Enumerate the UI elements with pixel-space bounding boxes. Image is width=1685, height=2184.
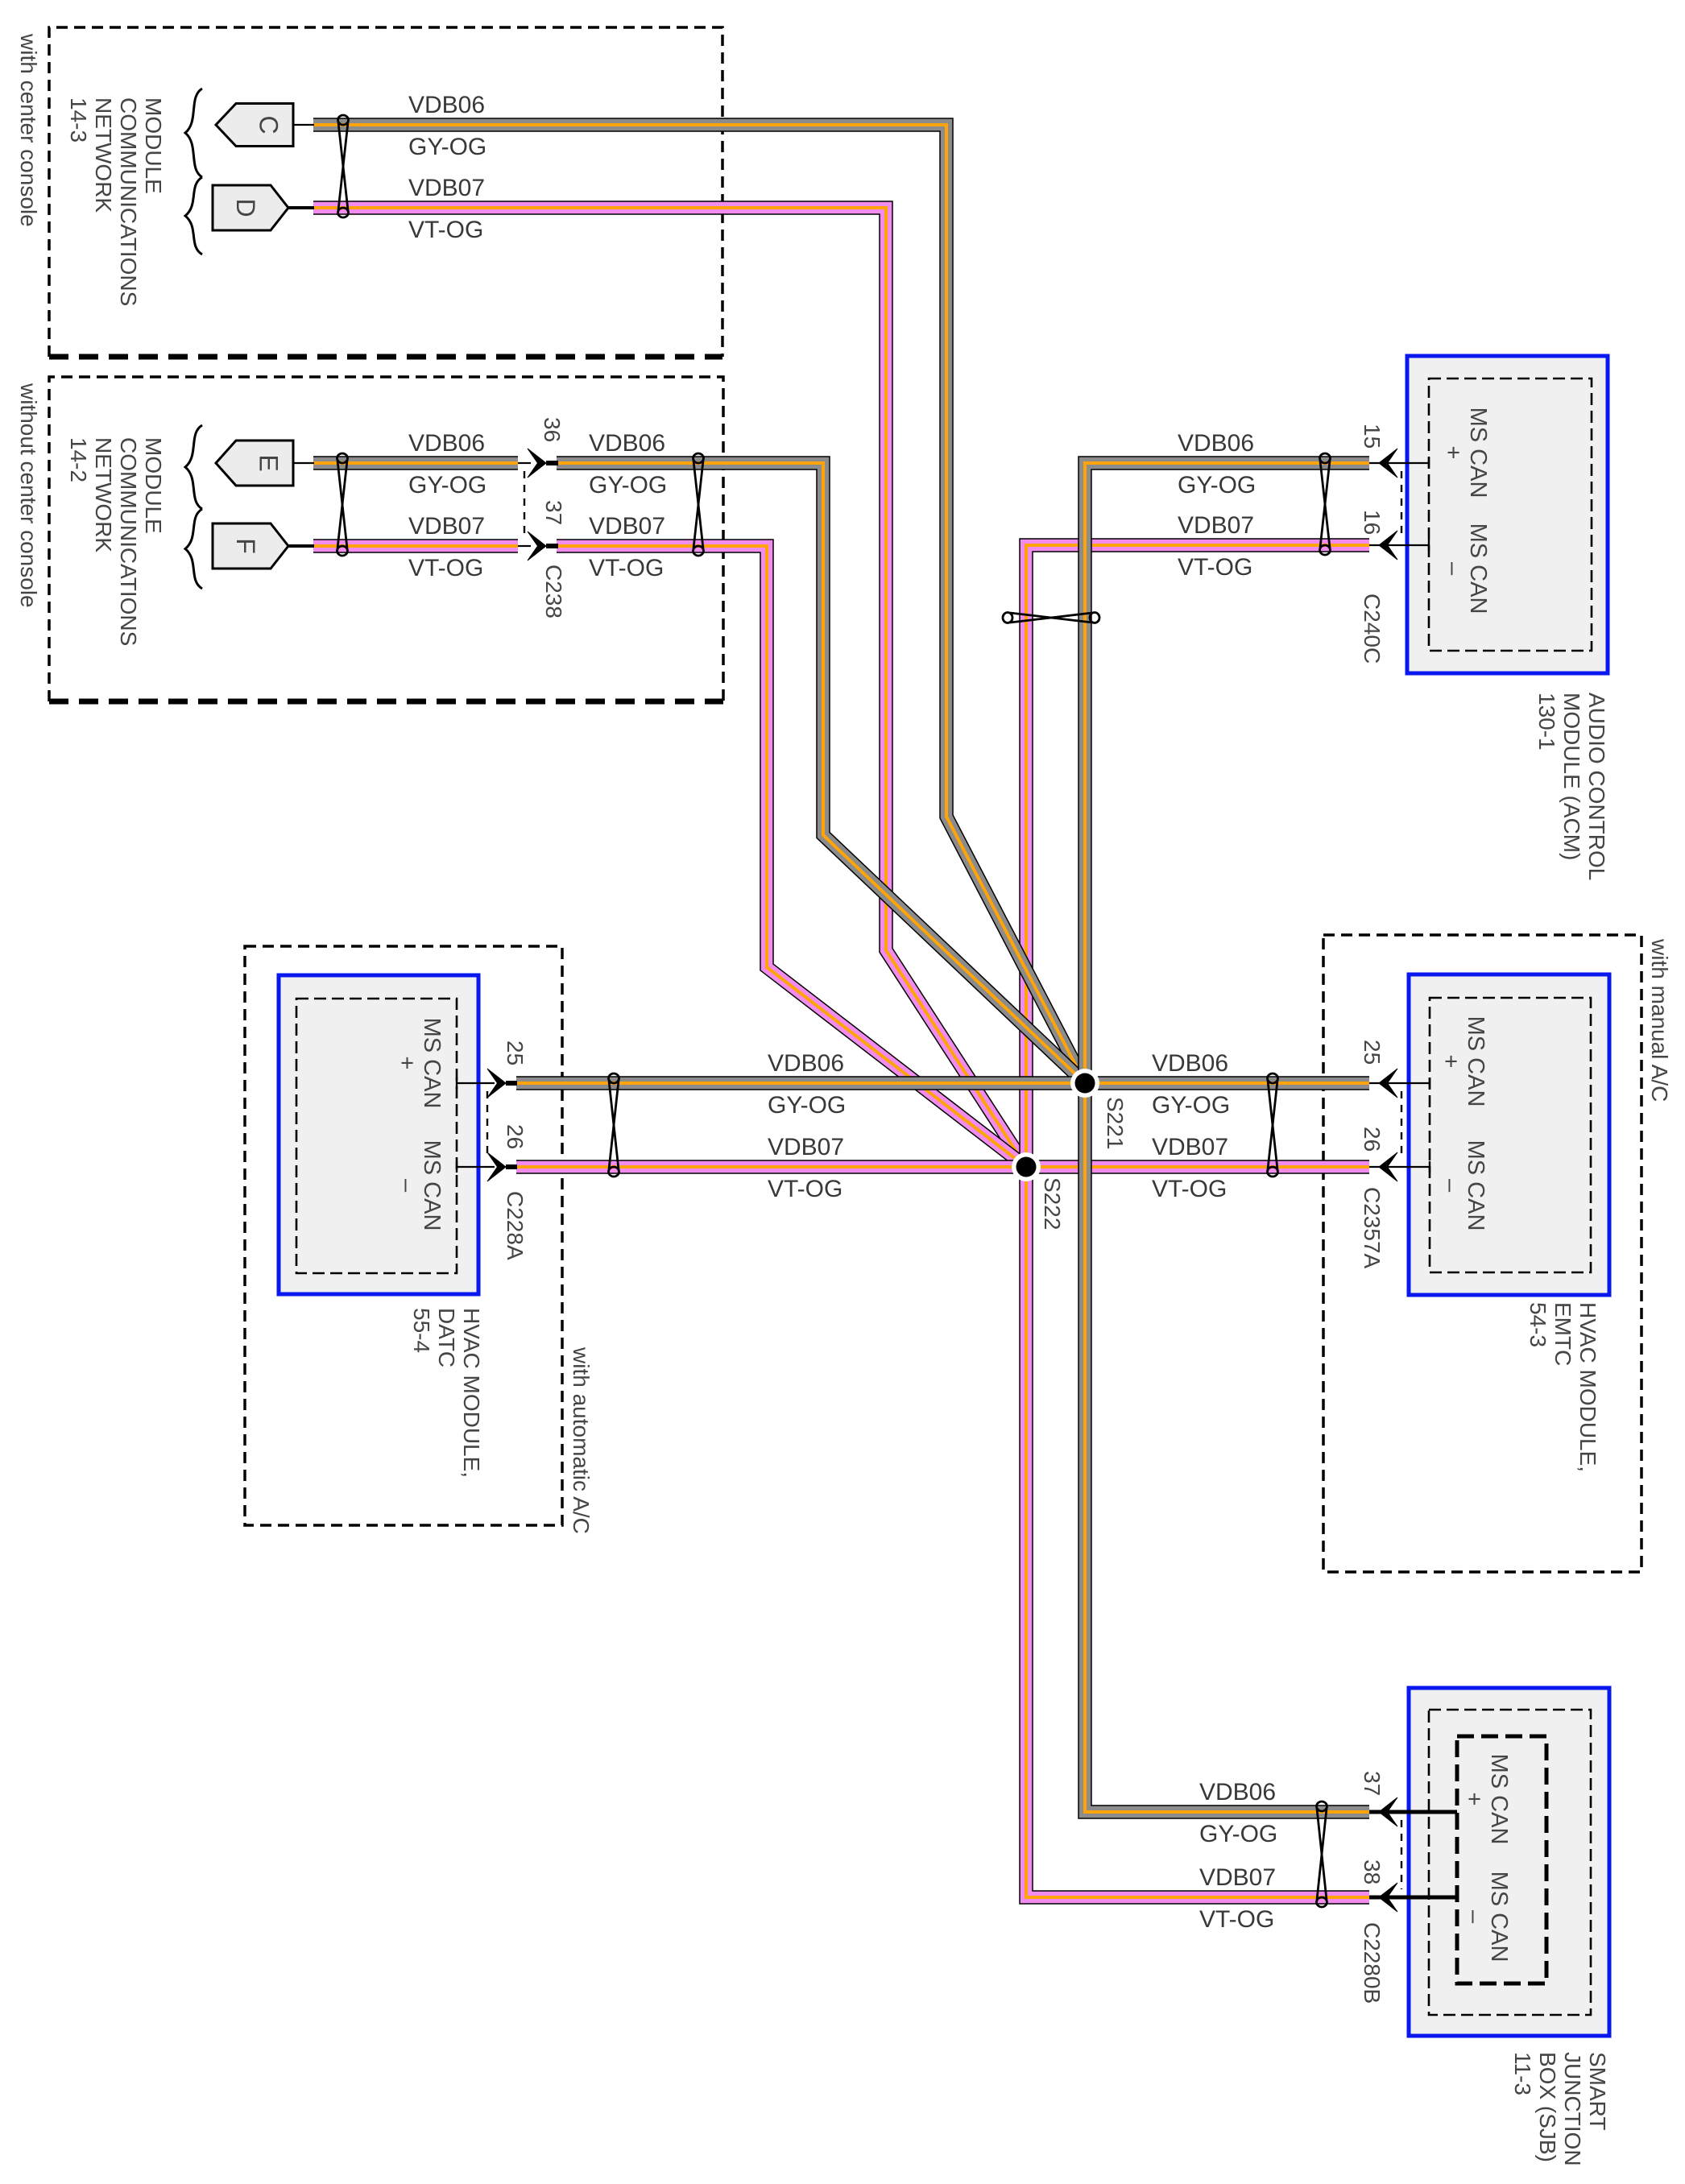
svg-text:C2357A: C2357A: [1360, 1187, 1385, 1269]
wire VDB06 mid horizontal: [516, 1076, 1369, 1090]
lead line D: [288, 206, 314, 209]
svg-text:GY-OG: GY-OG: [1199, 1821, 1277, 1847]
connector D: [213, 185, 288, 230]
pin 25 EMTC: [1369, 1069, 1430, 1098]
svg-text:26: 26: [1360, 1127, 1385, 1152]
svg-text:11-3: 11-3: [1510, 2052, 1535, 2095]
svg-text:MS CAN: MS CAN: [419, 1018, 445, 1109]
svg-text:25: 25: [503, 1040, 528, 1065]
scenario box: with center console: [49, 27, 722, 357]
svg-text:MODULE: MODULE: [141, 437, 166, 534]
connector C: [216, 104, 293, 147]
inline connector C238 links: [518, 463, 531, 546]
module box U3 HVAC EMTC: [1409, 974, 1609, 1295]
svg-text:NETWORK: NETWORK: [91, 437, 116, 552]
svg-text:D: D: [231, 198, 260, 217]
label: SJB name: [1510, 2052, 1610, 2166]
svg-text:MS CAN: MS CAN: [419, 1140, 445, 1231]
text: ACM MS CAN +: [1440, 407, 1491, 498]
svg-text:AUDIO CONTROL: AUDIO CONTROL: [1584, 693, 1609, 880]
svg-text:–: –: [1438, 1179, 1464, 1193]
svg-text:HVAC MODULE,: HVAC MODULE,: [459, 1308, 484, 1478]
wire VDB07 from C238 to S222: [557, 546, 1026, 1167]
twisted pair DATC: [609, 1073, 619, 1177]
wire VDB07 from D to S222: [313, 208, 1026, 1167]
svg-text:–: –: [394, 1179, 420, 1193]
svg-text:MODULE: MODULE: [141, 97, 166, 194]
connector label C240C: [1360, 594, 1385, 664]
svg-text:GY-OG: GY-OG: [768, 1092, 846, 1119]
svg-text:VDB06: VDB06: [1178, 430, 1254, 457]
svg-text:–: –: [1461, 1910, 1487, 1924]
pin 37 arrow C238: [528, 532, 546, 560]
svg-text:+: +: [394, 1057, 420, 1070]
svg-text:38: 38: [1360, 1859, 1385, 1884]
svg-text:GY-OG: GY-OG: [408, 472, 486, 498]
label: ACM name: [1534, 693, 1609, 880]
svg-text:MS CAN: MS CAN: [1463, 1140, 1488, 1231]
pin 26 DATC: [457, 1152, 517, 1181]
svg-text:15: 15: [1360, 424, 1385, 449]
text: ACM MS CAN -: [1440, 523, 1491, 614]
DATC pin link dashed: [486, 1091, 488, 1159]
twisted pair SJB: [1317, 1801, 1327, 1907]
pin 26 EMTC: [1369, 1152, 1430, 1181]
label: EMTC name: [1526, 1302, 1600, 1472]
svg-text:25: 25: [1360, 1040, 1385, 1065]
svg-text:55-4: 55-4: [409, 1308, 434, 1353]
svg-text:EMTC: EMTC: [1550, 1302, 1575, 1366]
svg-text:C228A: C228A: [503, 1191, 528, 1260]
svg-text:VDB06: VDB06: [408, 430, 485, 457]
svg-text:C238: C238: [541, 565, 566, 618]
label: MCN 14-3: [66, 97, 166, 306]
svg-text:36: 36: [540, 417, 565, 442]
pin label 26 EMTC: [1360, 1127, 1385, 1152]
wire VDB06 from C238 to S221: [557, 463, 1085, 1083]
EMTC pin link dashed: [1401, 1091, 1402, 1159]
pin label 25 DATC: [503, 1040, 528, 1065]
text: DATC MS CAN -: [394, 1140, 445, 1231]
connector F: [213, 523, 288, 569]
twisted pair E/F seg1: [337, 453, 348, 556]
svg-text:BOX (SJB): BOX (SJB): [1535, 2052, 1560, 2162]
label: with automatic A/C: [569, 1346, 594, 1534]
svg-text:COMMUNICATIONS: COMMUNICATIONS: [116, 97, 141, 306]
pin 38 SJB: [1369, 1883, 1457, 1912]
svg-text:14-2: 14-2: [66, 437, 91, 482]
svg-text:VDB06: VDB06: [768, 1050, 844, 1077]
pin label 38 SJB: [1360, 1859, 1385, 1884]
pin label 37 C238: [541, 500, 566, 525]
twisted pair C/D: [338, 115, 349, 217]
module box U2 HVAC DATC: [279, 975, 478, 1294]
svg-text:VDB06: VDB06: [408, 92, 485, 118]
svg-text:MS CAN: MS CAN: [1463, 1016, 1488, 1107]
svg-text:with automatic A/C: with automatic A/C: [569, 1346, 594, 1534]
svg-text:with manual A/C: with manual A/C: [1647, 938, 1672, 1102]
lead line F: [288, 544, 314, 548]
splice S221: [1070, 1069, 1099, 1098]
svg-text:JUNCTION: JUNCTION: [1560, 2052, 1585, 2166]
ACM pin link dashed: [1401, 471, 1402, 537]
splice S222: [1012, 1152, 1041, 1181]
twisted pair EMTC: [1268, 1073, 1278, 1177]
wire VDB07 ACM16 to SJB38: [1026, 545, 1369, 1897]
svg-text:VDB07: VDB07: [1152, 1134, 1228, 1160]
svg-text:VT-OG: VT-OG: [1152, 1176, 1227, 1202]
svg-text:130-1: 130-1: [1534, 693, 1559, 751]
pin label 36: [540, 417, 565, 442]
wire VDB07 mid horizontal: [516, 1160, 1369, 1174]
pin label 16 ACM: [1360, 510, 1385, 535]
svg-text:VDB07: VDB07: [589, 513, 665, 540]
svg-text:+: +: [1440, 446, 1466, 460]
module box U1 ACM: [1407, 356, 1608, 673]
lead line C: [293, 124, 314, 126]
svg-text:26: 26: [503, 1124, 528, 1149]
wire VDB07 from F seg1: [313, 539, 518, 553]
svg-text:+: +: [1438, 1055, 1464, 1069]
text: SJB MS CAN +: [1461, 1754, 1512, 1845]
svg-text:E: E: [255, 454, 284, 471]
svg-text:SMART: SMART: [1585, 2052, 1610, 2131]
svg-text:VDB06: VDB06: [1152, 1050, 1228, 1077]
text: EMTC MS CAN +: [1438, 1016, 1488, 1107]
pin label 15 ACM: [1360, 424, 1385, 449]
lead line E: [293, 462, 314, 464]
svg-text:54-3: 54-3: [1526, 1302, 1550, 1347]
svg-text:NETWORK: NETWORK: [91, 97, 116, 213]
svg-text:MS CAN: MS CAN: [1486, 1872, 1512, 1963]
label: with manual A/C: [1647, 938, 1672, 1102]
svg-text:GY-OG: GY-OG: [589, 472, 667, 498]
svg-text:GY-OG: GY-OG: [408, 134, 486, 160]
connector label C2357A: [1360, 1187, 1385, 1269]
pin 25 DATC: [457, 1069, 517, 1098]
brace for E: [185, 425, 202, 509]
scenario box: with automatic A/C: [245, 946, 562, 1525]
svg-text:MODULE (ACM): MODULE (ACM): [1559, 693, 1584, 860]
svg-text:14-3: 14-3: [66, 97, 91, 143]
wire VDB06 from E seg1: [313, 456, 518, 470]
svg-text:MS CAN: MS CAN: [1486, 1754, 1512, 1845]
svg-text:VDB06: VDB06: [1199, 1779, 1276, 1806]
svg-text:F: F: [231, 538, 260, 554]
svg-text:37: 37: [541, 500, 566, 525]
svg-text:GY-OG: GY-OG: [1178, 472, 1256, 498]
svg-text:16: 16: [1360, 510, 1385, 535]
svg-text:VDB07: VDB07: [768, 1134, 844, 1160]
svg-text:S221: S221: [1103, 1097, 1128, 1149]
svg-text:37: 37: [1360, 1771, 1385, 1796]
connector E: [216, 441, 293, 486]
svg-text:C: C: [255, 115, 284, 134]
connector label C228A: [503, 1191, 528, 1260]
svg-text:VT-OG: VT-OG: [408, 555, 483, 581]
pin 37 SJB: [1369, 1797, 1457, 1826]
pin 15 ACM: [1369, 449, 1429, 478]
svg-text:–: –: [1440, 562, 1466, 576]
pin 36 arrow C238: [528, 449, 546, 478]
svg-text:COMMUNICATIONS: COMMUNICATIONS: [116, 437, 141, 646]
svg-text:VDB07: VDB07: [408, 513, 485, 540]
pin label 37 SJB: [1360, 1771, 1385, 1796]
svg-text:with center console: with center console: [16, 33, 41, 227]
twisted pair ACM: [1320, 453, 1331, 555]
svg-text:DATC: DATC: [434, 1308, 459, 1367]
svg-text:without center console: without center console: [16, 383, 41, 608]
svg-text:VDB07: VDB07: [1199, 1864, 1276, 1891]
text: SJB MS CAN -: [1461, 1872, 1512, 1963]
twisted pair ACM vertical pair: [1003, 613, 1099, 623]
scenario box: without center console: [49, 377, 723, 701]
SJB pin link dashed: [1401, 1820, 1402, 1889]
text: DATC MS CAN +: [394, 1018, 445, 1109]
svg-text:VT-OG: VT-OG: [408, 217, 483, 243]
svg-text:VDB06: VDB06: [589, 430, 665, 457]
label: with center console: [16, 33, 41, 227]
svg-text:MS CAN: MS CAN: [1465, 523, 1491, 614]
brace for C: [185, 89, 202, 177]
svg-text:GY-OG: GY-OG: [1152, 1092, 1230, 1119]
svg-text:C240C: C240C: [1360, 594, 1385, 664]
brace for D: [185, 177, 202, 254]
wire VDB06 from C to S221: [313, 125, 1085, 1083]
brace for F: [185, 509, 202, 589]
pin label 26 DATC: [503, 1124, 528, 1149]
twisted pair E/F seg2: [693, 453, 704, 556]
svg-text:MS CAN: MS CAN: [1465, 407, 1491, 498]
connector label C238: [541, 565, 566, 618]
label: DATC name: [409, 1308, 484, 1478]
splice label S222: [1040, 1177, 1065, 1230]
svg-text:VT-OG: VT-OG: [768, 1176, 842, 1202]
svg-text:VDB07: VDB07: [1178, 512, 1254, 539]
wire VDB06 ACM15 to SJB37: [1085, 463, 1369, 1812]
pin label 25 EMTC: [1360, 1040, 1385, 1065]
svg-text:VT-OG: VT-OG: [1178, 554, 1252, 581]
svg-text:C2280B: C2280B: [1360, 1922, 1385, 2004]
svg-text:VDB07: VDB07: [408, 175, 485, 201]
connector label C2280B: [1360, 1922, 1385, 2004]
label: MCN 14-2: [66, 437, 166, 646]
svg-text:VT-OG: VT-OG: [589, 555, 664, 581]
svg-text:+: +: [1461, 1793, 1487, 1806]
module box U4 SJB: [1409, 1688, 1609, 2036]
scenario box: with manual A/C: [1323, 935, 1642, 1572]
splice label S221: [1103, 1097, 1128, 1149]
svg-text:VT-OG: VT-OG: [1199, 1906, 1274, 1933]
pin 16 ACM: [1369, 531, 1429, 560]
svg-text:S222: S222: [1040, 1177, 1065, 1230]
svg-text:HVAC MODULE,: HVAC MODULE,: [1575, 1302, 1600, 1472]
label: without center console: [16, 383, 41, 608]
text: EMTC MS CAN -: [1438, 1140, 1488, 1231]
